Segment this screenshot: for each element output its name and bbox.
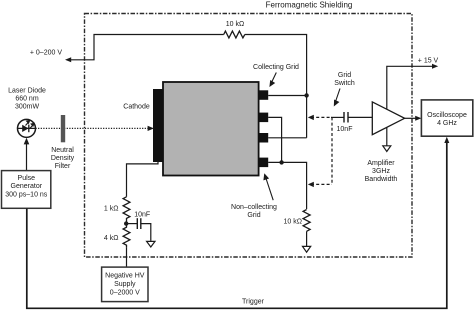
svg-text:+ 15 V: + 15 V	[418, 58, 439, 65]
laser light arrows	[26, 122, 29, 126]
wire resistor to collecting-grid rail	[245, 35, 307, 138]
capacitor C 10nF (signal)	[343, 112, 345, 123]
svg-text:10 kΩ: 10 kΩ	[226, 21, 244, 28]
svg-text:Collecting Grid: Collecting Grid	[253, 64, 299, 71]
svg-text:Filter: Filter	[55, 163, 71, 170]
svg-text:Amplifier: Amplifier	[367, 160, 395, 167]
svg-text:Grid: Grid	[338, 72, 351, 79]
wire +15V supply	[387, 66, 436, 109]
shielding enclosure (dash-dot box)	[85, 14, 413, 258]
wire pulse generator to laser diode	[26, 141, 28, 171]
svg-text:10nF: 10nF	[337, 126, 353, 133]
wire grid3 to rail	[268, 137, 306, 139]
grid switch dashed link upper	[311, 116, 332, 118]
wire trigger run	[27, 140, 447, 308]
ground amplifier	[383, 146, 391, 152]
junction dot grid1/rail	[304, 93, 308, 97]
svg-text:Neutral: Neutral	[51, 147, 74, 154]
arrow +15V	[432, 64, 438, 69]
arrow into laser diode	[24, 138, 30, 145]
svg-text:10nF: 10nF	[134, 211, 150, 218]
wire amplifier ground	[386, 127, 388, 145]
arrow beam into cathode	[148, 126, 154, 131]
arrow switch to non-collecting rail	[308, 182, 314, 187]
wire amplifier to oscilloscope	[405, 117, 419, 119]
svg-text:4 GHz: 4 GHz	[437, 120, 457, 127]
resistor R 4 kOhm	[123, 224, 130, 248]
resistor R 10 kOhm (to ground, non-collecting)	[303, 210, 310, 232]
svg-text:4 kΩ: 4 kΩ	[104, 235, 119, 242]
svg-text:Non–collecting: Non–collecting	[231, 204, 277, 211]
svg-text:Laser Diode: Laser Diode	[8, 88, 46, 95]
svg-text:Pulse: Pulse	[18, 175, 36, 182]
arrow Non-collecting Grid pointer	[266, 178, 274, 201]
svg-text:0–2000 V: 0–2000 V	[110, 290, 140, 297]
junction dot grid2/grid4	[279, 160, 283, 164]
grid electrode 4 (non-collecting)	[259, 158, 269, 168]
svg-text:300mW: 300mW	[15, 104, 40, 111]
junction dot divider/cap	[124, 221, 128, 225]
svg-text:Trigger: Trigger	[242, 298, 265, 305]
wire cathode to divider	[127, 161, 159, 197]
wire grid2 to non-collecting rail	[268, 117, 281, 162]
svg-text:3GHz: 3GHz	[372, 168, 390, 175]
svg-text:660 nm: 660 nm	[15, 96, 39, 103]
grid electrode 2 (non-collecting)	[259, 113, 269, 123]
svg-text:Negative HV: Negative HV	[105, 273, 145, 280]
wire cap to amplifier	[348, 116, 372, 118]
resistor R top 10 kOhm	[224, 31, 245, 38]
arrow into oscilloscope	[415, 116, 421, 121]
ground divider cap	[147, 241, 155, 247]
ground (non-collecting rail)	[303, 246, 311, 252]
pulse generator box	[2, 171, 51, 209]
tube body	[163, 82, 259, 176]
negative HV supply box	[102, 267, 148, 302]
svg-text:Supply: Supply	[114, 281, 136, 288]
op-amp amplifier triangle	[372, 102, 404, 135]
svg-text:Density: Density	[51, 155, 75, 162]
wire resistor to ground	[306, 231, 308, 246]
arrow Grid Switch pointer	[335, 89, 340, 103]
wire grid1 to rail	[268, 95, 306, 97]
laser diode circle	[18, 119, 36, 137]
svg-text:10 kΩ: 10 kΩ	[284, 219, 302, 226]
arrow Collecting Grid pointer	[271, 73, 277, 85]
svg-text:+ 0–200 V: + 0–200 V	[30, 50, 62, 57]
wire +0-200V feed	[67, 35, 224, 60]
neutral density filter bar	[61, 115, 65, 142]
arrow trigger into oscilloscope	[444, 137, 449, 143]
grid electrode 1 (collecting)	[259, 90, 269, 100]
arrow switch to collecting rail	[308, 115, 314, 120]
svg-text:Bandwidth: Bandwidth	[365, 176, 398, 183]
svg-text:300 ps–10 ns: 300 ps–10 ns	[5, 191, 48, 198]
resistor R 1 kOhm	[123, 197, 130, 224]
grid switch dashed link lower	[311, 183, 332, 185]
laser beam dotted	[36, 127, 149, 129]
grid switch dashed link vertical	[331, 117, 333, 184]
svg-text:Cathode: Cathode	[123, 104, 150, 111]
arrow to +0-200V supply	[65, 57, 71, 62]
cathode electrode bar	[153, 89, 163, 162]
capacitor C 10nF (divider)	[136, 218, 138, 229]
svg-text:Oscilloscope: Oscilloscope	[427, 112, 467, 119]
wire grid4 to non-collecting rail	[268, 162, 306, 209]
svg-text:Grid: Grid	[247, 212, 260, 219]
svg-text:Ferromagnetic Shielding: Ferromagnetic Shielding	[266, 0, 353, 9]
wire cap to ground	[141, 224, 151, 241]
wire divider to HV supply	[126, 247, 128, 267]
svg-text:Switch: Switch	[334, 80, 355, 87]
wire switch junction to capacitor	[331, 116, 344, 118]
grid electrode 3 (collecting)	[259, 133, 269, 143]
svg-text:1 kΩ: 1 kΩ	[104, 206, 119, 213]
svg-text:Generator: Generator	[11, 183, 43, 190]
oscilloscope box	[421, 100, 472, 136]
laser diode internal symbol	[18, 127, 36, 129]
wire junction to cap	[127, 223, 138, 225]
